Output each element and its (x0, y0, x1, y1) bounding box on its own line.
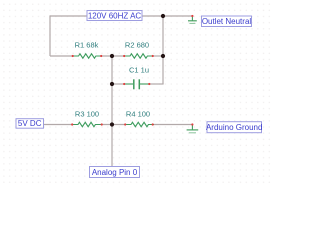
node Analog Pin 0 (90, 167, 140, 178)
svg-text:R1 68k: R1 68k (75, 41, 99, 50)
resistor R1 (72, 41, 103, 59)
wire mid rail vertical (111, 56, 113, 167)
node 5V DC (16, 119, 44, 129)
ground outlet-neutral side (188, 15, 197, 24)
wire C1 to right rail (149, 83, 164, 85)
svg-text:Outlet Neutral: Outlet Neutral (202, 17, 252, 26)
svg-text:5V DC: 5V DC (18, 119, 42, 128)
wire R4 to ground (152, 124, 192, 126)
svg-text:120V 60HZ AC: 120V 60HZ AC (88, 11, 142, 20)
wire 5VDC to R3 (44, 124, 73, 126)
ground arduino side (187, 123, 199, 132)
resistor R4 (124, 110, 154, 127)
svg-text:R4 100: R4 100 (126, 110, 150, 119)
capacitor C1 (123, 66, 150, 90)
junction R2-rail (161, 54, 165, 58)
svg-text:R2 680: R2 680 (125, 41, 149, 50)
wire R3 to R4 (102, 124, 126, 126)
wire right rail vertical (162, 16, 164, 84)
junction R1-R2 (110, 54, 114, 58)
wire top-left horizontal (50, 15, 87, 17)
wire rail to C1 (112, 83, 125, 85)
node 120V 60HZ AC (87, 11, 142, 21)
wire R1 to R2 (101, 55, 125, 57)
junction C1-rail (110, 82, 114, 86)
svg-text:Arduino Ground: Arduino Ground (206, 123, 262, 132)
wire R2 to right rail (152, 55, 163, 57)
svg-text:Analog Pin 0: Analog Pin 0 (92, 168, 138, 177)
wire top-right horizontal (142, 15, 192, 17)
node Arduino Ground (206, 122, 262, 133)
svg-text:C1 1u: C1 1u (129, 66, 149, 75)
svg-text:R3 100: R3 100 (75, 110, 99, 119)
node Outlet Neutral (202, 16, 252, 27)
junction R3-R4 (110, 122, 114, 126)
wire left rail vertical (49, 15, 51, 56)
resistor R3 (71, 110, 103, 127)
wire rail to R1 (50, 55, 73, 57)
junction top rail (161, 14, 165, 18)
resistor R2 (123, 41, 154, 59)
